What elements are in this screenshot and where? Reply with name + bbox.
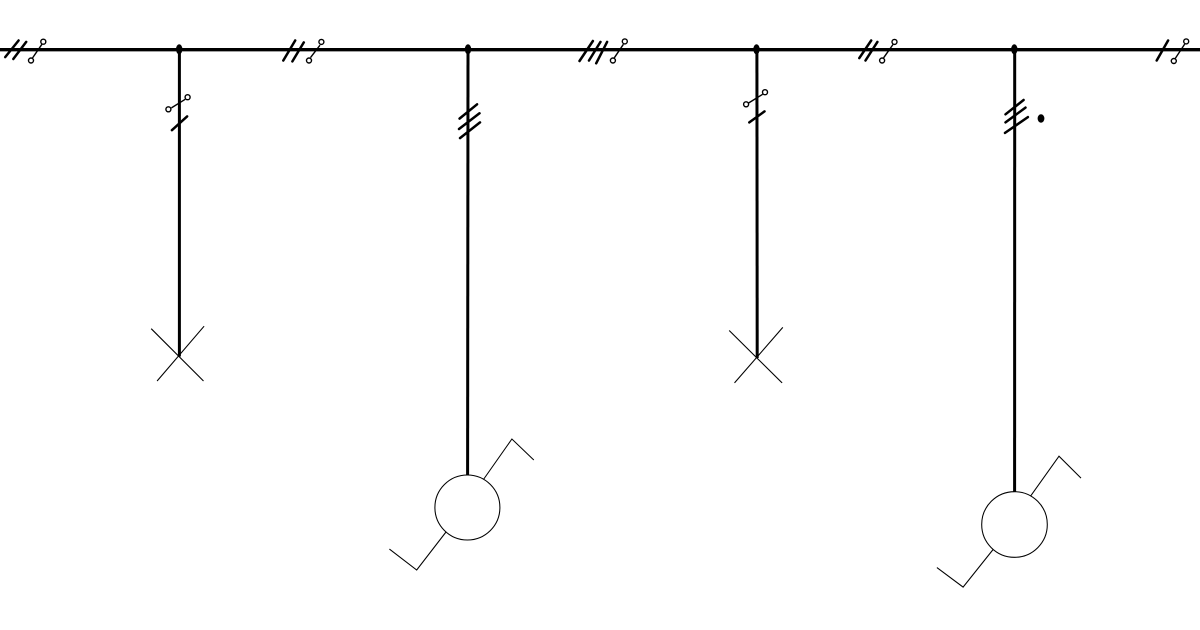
wire: motor M1 lower-left zigzag lead: [389, 532, 446, 570]
switch S5 on bus: [1171, 39, 1188, 64]
switch S7 on branch 3: [744, 90, 768, 107]
node A: junction dot, branch 1: [176, 44, 182, 54]
switch S3 on bus: [610, 39, 627, 63]
node C: junction dot, branch 3: [753, 44, 759, 54]
switch S1 on bus (circle-ended contact): [29, 39, 46, 63]
lamp outlet X2 (cross): [729, 327, 783, 383]
motor M1 (circle): [435, 475, 500, 540]
wire: branch 2 vertical drop: [466, 49, 469, 475]
conductor tick marks (3) on branch 4: [1005, 100, 1028, 133]
conductor tick mark on branch 1: [172, 116, 187, 130]
wire: branch 1 vertical drop: [178, 49, 181, 357]
conductor tick marks (3) on branch 2: [459, 104, 480, 138]
wire: motor M2 upper-right zigzag lead: [1031, 456, 1082, 496]
switch S6 on branch 1: [166, 95, 190, 112]
wire: branch 4 vertical drop: [1013, 49, 1016, 492]
wire: main horizontal bus: [0, 48, 1200, 51]
conductor tick marks (2) on bus, far left: [5, 41, 26, 60]
conductor tick mark on branch 3: [749, 111, 764, 122]
switch S4 on bus: [880, 39, 897, 63]
wire: branch 3 vertical drop: [755, 49, 758, 358]
node D: junction dot, branch 4: [1011, 44, 1017, 54]
wire: motor M2 lower-left zigzag lead: [937, 550, 993, 588]
conductor tick marks (3) on bus, middle group: [580, 41, 608, 63]
motor M2 (circle): [982, 492, 1048, 558]
wire: motor M1 upper-right zigzag lead: [484, 439, 534, 479]
node E: stray dot beside branch 4 ticks: [1038, 114, 1045, 122]
lamp outlet X1 (cross): [151, 326, 204, 381]
node B: junction dot, branch 2: [465, 44, 471, 54]
switch S2 on bus: [307, 39, 324, 63]
conductor tick mark (1) on bus, far right: [1157, 41, 1168, 61]
conductor tick marks (2) on bus, fourth group: [859, 41, 877, 61]
conductor tick marks (2) on bus, second group: [283, 41, 304, 62]
